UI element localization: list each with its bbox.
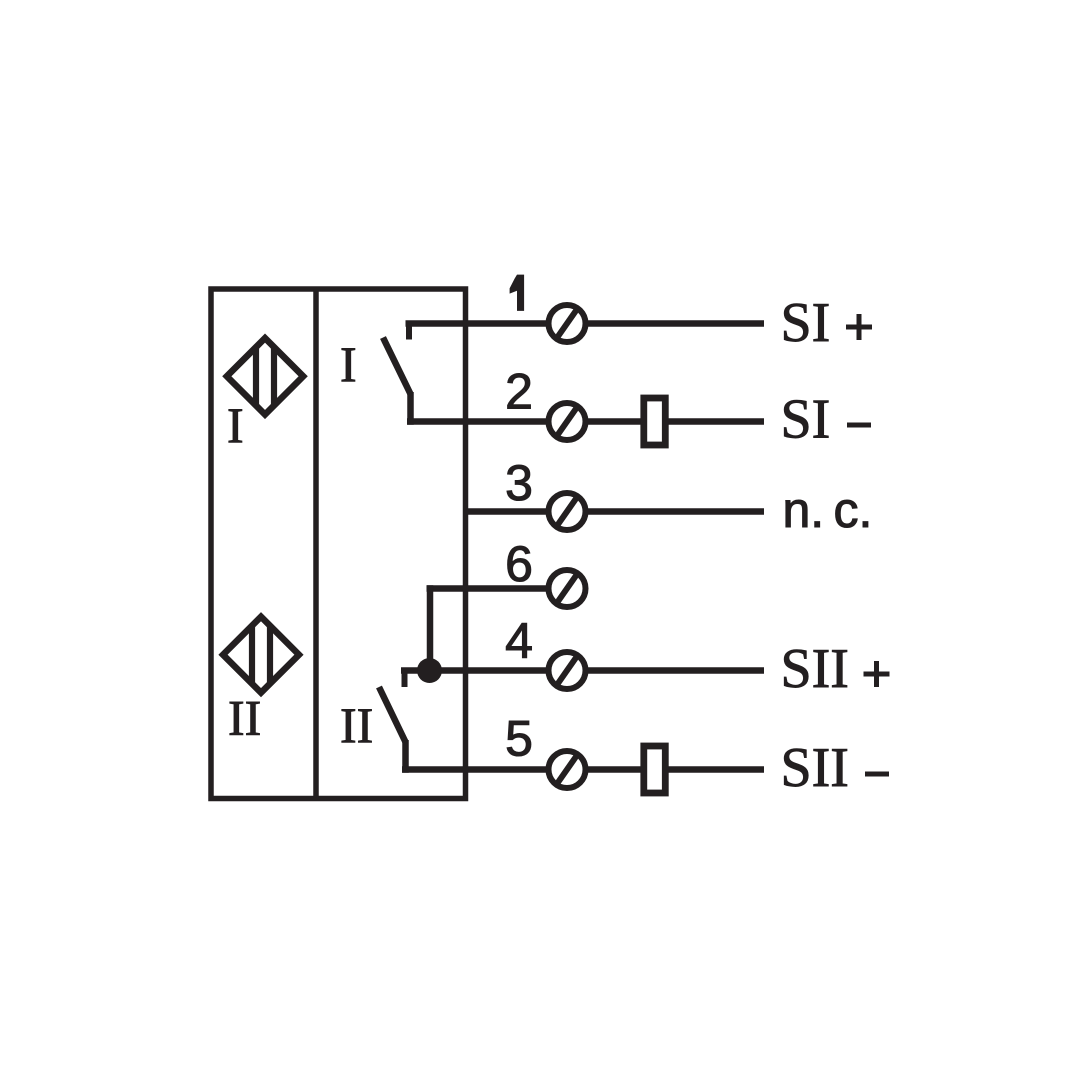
minus sign of SI- xyxy=(847,423,871,428)
wire row 5 (switch II bottom to SII-) xyxy=(402,766,764,773)
terminal 5 xyxy=(549,751,586,788)
wire terminal 6 branch vertical xyxy=(427,585,434,670)
svg-text:SII: SII xyxy=(781,638,849,700)
divider line xyxy=(313,289,319,799)
pin number 1 xyxy=(510,275,524,311)
wire row 2 (switch I bottom to SI-) xyxy=(407,418,764,425)
wire row 4 (switch II contact to SII+) xyxy=(401,667,764,674)
wire row 1 (switch I top contact to SI+) xyxy=(406,320,765,327)
svg-text:I: I xyxy=(340,336,357,392)
terminal 4 xyxy=(549,652,586,689)
svg-text:2: 2 xyxy=(505,364,533,420)
plus sign of SII+ xyxy=(864,661,890,687)
sensor II diamond xyxy=(223,614,299,695)
terminal 2 xyxy=(549,403,586,440)
svg-text:3: 3 xyxy=(505,455,533,511)
svg-text:4: 4 xyxy=(505,613,533,669)
wire row 3 (n.c.) xyxy=(466,508,765,515)
switch II fixed contact tick xyxy=(402,668,408,688)
terminal 3 xyxy=(549,493,586,530)
switch I blade stub xyxy=(407,392,414,425)
wire terminal 6 branch horizontal xyxy=(427,585,567,592)
svg-text:SI: SI xyxy=(781,389,831,451)
svg-text:6: 6 xyxy=(505,536,533,592)
minus sign of SII- xyxy=(865,772,889,777)
enclosure box xyxy=(211,289,466,799)
svg-text:I: I xyxy=(227,397,244,453)
switch II blade stub xyxy=(402,740,409,773)
svg-text:II: II xyxy=(228,690,261,746)
svg-text:n.: n. xyxy=(783,482,825,538)
svg-text:c.: c. xyxy=(834,482,873,538)
switch II blade xyxy=(379,687,406,742)
resistor box R2 on row 5 xyxy=(644,746,666,793)
svg-text:SII: SII xyxy=(781,737,849,799)
terminal 1 xyxy=(549,305,586,342)
svg-text:II: II xyxy=(340,697,373,753)
svg-text:SI: SI xyxy=(781,292,831,354)
junction node dot xyxy=(417,658,442,683)
switch I fixed contact tick xyxy=(406,321,412,340)
sensor I diamond xyxy=(227,336,303,417)
svg-text:5: 5 xyxy=(505,711,533,767)
plus sign of SI+ xyxy=(846,314,872,340)
resistor box R1 on row 2 xyxy=(644,398,666,445)
terminal 6 xyxy=(549,570,586,607)
switch I blade xyxy=(383,338,411,395)
